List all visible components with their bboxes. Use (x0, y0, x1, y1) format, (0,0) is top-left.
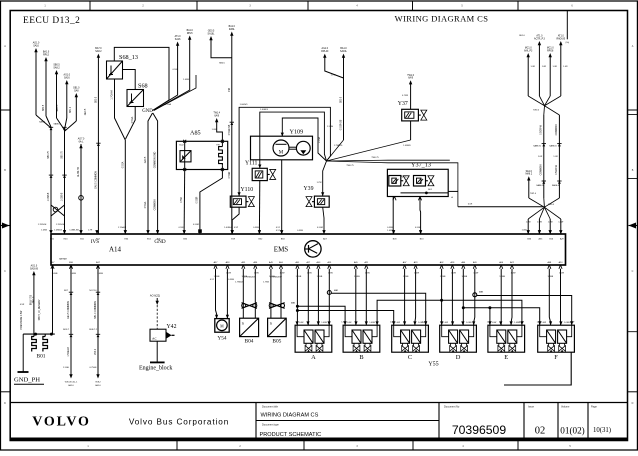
svg-text:1.0SB/9: 1.0SB/9 (403, 145, 411, 147)
svg-text:1.0GN/9: 1.0GN/9 (260, 109, 269, 111)
svg-text:1.7SB-B: 1.7SB-B (235, 282, 243, 284)
svg-text:A85: A85 (190, 130, 201, 137)
svg-text:D: D (632, 402, 634, 405)
svg-text:1.0SB: 1.0SB (403, 276, 409, 278)
svg-text:B04: B04 (245, 339, 254, 345)
svg-text:1.0SB: 1.0SB (183, 79, 189, 81)
svg-text:1.0W: 1.0W (422, 322, 427, 324)
svg-text:1.0W: 1.0W (365, 273, 370, 275)
svg-text:PRODUCT SCHEMATIC: PRODUCT SCHEMATIC (260, 432, 322, 438)
svg-text:MC1.0: MC1.0 (547, 48, 554, 50)
svg-text:1.0SB-B: 1.0SB-B (62, 192, 64, 201)
svg-text:1.0W: 1.0W (299, 322, 304, 324)
svg-text:Y37_13: Y37_13 (411, 162, 431, 169)
svg-text:0.5GR: 0.5GR (193, 224, 200, 226)
svg-text:Page: Page (591, 406, 597, 409)
svg-text:SB0.5: SB0.5 (341, 96, 343, 103)
svg-text:1.0W: 1.0W (570, 322, 575, 324)
svg-text:1.0SB: 1.0SB (387, 230, 393, 232)
svg-text:SB1.0: SB1.0 (70, 106, 72, 113)
svg-text:VOLVO: VOLVO (32, 415, 91, 430)
svg-text:10(31): 10(31) (593, 427, 611, 434)
svg-text:1.0SB: 1.0SB (461, 276, 467, 278)
svg-text:Y54: Y54 (217, 336, 227, 342)
svg-text:SB0.5: SB0.5 (53, 65, 60, 67)
svg-text:TW0.5: TW0.5 (548, 204, 555, 206)
svg-text:0.75W: 0.75W (402, 95, 408, 97)
svg-text:1.0W: 1.0W (328, 273, 333, 275)
svg-text:M: M (220, 324, 224, 328)
svg-text:0.5W: 0.5W (181, 196, 183, 202)
svg-text:B01: B01 (37, 354, 46, 360)
svg-text:RPO8: RPO8 (547, 50, 554, 52)
svg-text:TW1.4: TW1.4 (213, 113, 220, 115)
svg-text:SB0.75: SB0.75 (48, 151, 50, 159)
svg-text:AO 6(22): AO 6(22) (150, 295, 160, 298)
svg-text:1.0SB-B: 1.0SB-B (54, 230, 62, 232)
svg-text:0.5Y: 0.5Y (276, 230, 281, 232)
svg-text:1.5GN: 1.5GN (327, 126, 334, 128)
svg-text:0.5Y: 0.5Y (210, 279, 215, 281)
svg-text:1.7W: 1.7W (331, 75, 336, 77)
svg-text:PM: PM (229, 88, 231, 92)
svg-text:0.5GR: 0.5GR (415, 227, 422, 229)
svg-text:1.0W: 1.0W (519, 322, 524, 324)
svg-text:1.0W: 1.0W (341, 322, 346, 324)
svg-text:D: D (456, 354, 461, 361)
svg-text:1.0SB: 1.0SB (440, 276, 446, 278)
svg-text:0.5Y: 0.5Y (276, 227, 281, 229)
svg-text:1.0SB: 1.0SB (41, 230, 47, 232)
svg-text:n: n (270, 321, 272, 326)
svg-text:1.0R: 1.0R (563, 66, 568, 68)
svg-text:C: C (632, 270, 634, 273)
svg-text:1.0W: 1.0W (511, 273, 516, 275)
svg-text:SB1.0: SB1.0 (73, 88, 80, 90)
svg-text:GND: GND (142, 109, 153, 114)
svg-text:1.0W: 1.0W (307, 273, 312, 275)
svg-text:TW0.75: TW0.75 (346, 165, 354, 167)
svg-text:1.0W: 1.0W (347, 322, 352, 324)
svg-text:1.0W: 1.0W (526, 222, 531, 224)
svg-text:70396509: 70396509 (452, 423, 506, 437)
svg-text:1.7R: 1.7R (88, 230, 93, 232)
svg-text:GE0.5: GE0.5 (208, 31, 215, 33)
svg-text:1.0W: 1.0W (395, 322, 400, 324)
svg-text:EECU D13_2: EECU D13_2 (23, 16, 80, 26)
svg-text:Y110: Y110 (241, 187, 254, 193)
svg-text:S68_13: S68_13 (119, 54, 138, 61)
svg-text:Document type: Document type (262, 424, 279, 427)
svg-text:1.0W: 1.0W (537, 322, 542, 324)
svg-text:1.0W: 1.0W (212, 129, 217, 131)
svg-text:S68: S68 (138, 83, 148, 90)
svg-text:0.5GR-SB: 0.5GR-SB (229, 124, 231, 135)
svg-text:Engine_block: Engine_block (139, 366, 172, 372)
svg-text:0.5R: 0.5R (20, 304, 25, 306)
svg-text:V08_NC10_1: V08_NC10_1 (65, 382, 78, 384)
svg-text:WIRING DIAGRAM CS: WIRING DIAGRAM CS (261, 413, 319, 419)
svg-text:TW1.0: TW1.0 (530, 193, 537, 195)
svg-text:1.0W: 1.0W (390, 322, 395, 324)
svg-text:02: 02 (535, 426, 546, 437)
svg-text:SB0.5_16_RESERV: SB0.5_16_RESERV (39, 299, 41, 320)
svg-text:Volvo Bus Corporation: Volvo Bus Corporation (129, 417, 229, 426)
svg-text:n: n (242, 321, 244, 326)
svg-text:1.0R: 1.0R (553, 156, 558, 158)
svg-text:0.5W: 0.5W (179, 227, 184, 229)
svg-text:1.0W: 1.0W (558, 222, 563, 224)
svg-text:1.0W: 1.0W (487, 322, 492, 324)
svg-text:1.0UB-6: 1.0UB-6 (224, 227, 232, 229)
svg-text:TW1.0: TW1.0 (407, 75, 414, 77)
svg-text:1.0SB: 1.0SB (564, 322, 570, 324)
svg-text:0.5GR: 0.5GR (229, 171, 231, 178)
svg-text:1.0SB: 1.0SB (214, 276, 220, 278)
svg-text:WIRING DIAGRAM CS: WIRING DIAGRAM CS (395, 13, 489, 23)
svg-text:Y42: Y42 (167, 324, 177, 330)
svg-text:E: E (504, 354, 508, 361)
svg-text:1.0SB: 1.0SB (466, 322, 472, 324)
svg-text:SB0.5: SB0.5 (219, 63, 226, 65)
svg-text:RD0.5: RD0.5 (57, 104, 59, 111)
svg-text:0.5W: 0.5W (173, 69, 178, 71)
svg-text:1.0R: 1.0R (553, 66, 558, 68)
svg-text:1.5GE: 1.5GE (63, 367, 70, 369)
svg-text:PRESSURE 0.5W: PRESSURE 0.5W (21, 310, 23, 329)
svg-text:C: C (408, 354, 412, 361)
svg-text:0.5GR-W: 0.5GR-W (556, 164, 558, 174)
svg-text:1.0W: 1.0W (522, 230, 527, 232)
svg-text:Y37: Y37 (398, 101, 408, 107)
svg-text:1.0W: 1.0W (559, 273, 564, 275)
svg-text:1.0W: 1.0W (473, 273, 478, 275)
svg-text:Volume: Volume (561, 406, 570, 409)
svg-text:TW0.75: TW0.75 (371, 157, 379, 159)
svg-text:SB0.75: SB0.75 (62, 151, 64, 159)
svg-text:1.0SB-B: 1.0SB-B (48, 192, 50, 201)
svg-text:EMS: EMS (274, 246, 289, 254)
svg-text:C: C (4, 270, 6, 273)
svg-text:0.75SB-B.B: 0.75SB-B.B (244, 277, 255, 279)
svg-text:1.0GN/9: 1.0GN/9 (240, 104, 249, 106)
svg-text:(2x): (2x) (566, 42, 570, 44)
svg-text:Document No: Document No (444, 406, 460, 409)
svg-text:SE1.0: SE1.0 (526, 171, 533, 173)
svg-text:SUB.7.2: SUB.7.2 (89, 329, 98, 331)
svg-text:0.5GR-SB: 0.5GR-SB (341, 119, 343, 130)
svg-text:COMMON GND: COMMON GND (155, 151, 157, 168)
svg-text:0.5SB: 0.5SB (228, 279, 234, 281)
svg-text:RPL40: RPL40 (321, 51, 329, 53)
svg-text:1.0SB: 1.0SB (499, 276, 505, 278)
svg-text:GE1.5 COMMON: GE1.5 COMMON (68, 301, 70, 319)
svg-text:Y111: Y111 (245, 161, 258, 167)
svg-text:0.75GE: 0.75GE (89, 367, 97, 369)
svg-text:B: B (359, 354, 363, 361)
svg-text:M: M (279, 151, 284, 156)
svg-text:1.5GE-M: 1.5GE-M (68, 347, 70, 356)
svg-text:SB0.5: SB0.5 (95, 96, 97, 103)
svg-text:1.0W: 1.0W (226, 273, 231, 275)
svg-text:1.0W: 1.0W (541, 322, 546, 324)
svg-text:NO7.16: NO7.16 (89, 290, 97, 292)
svg-text:1.7W: 1.7W (317, 182, 322, 184)
svg-text:Y39: Y39 (304, 186, 314, 192)
svg-text:01(02): 01(02) (560, 426, 585, 436)
svg-text:0.5GR: 0.5GR (317, 227, 324, 229)
svg-text:1.0W: 1.0W (280, 273, 285, 275)
svg-text:1.0W: 1.0W (254, 273, 259, 275)
svg-text:A14: A14 (109, 246, 122, 254)
svg-text:V06.2: V06.2 (95, 348, 97, 355)
svg-text:0.5P: 0.5P (234, 227, 239, 229)
svg-text:0.5SB: 0.5SB (253, 227, 259, 229)
svg-text:1.0W: 1.0W (451, 273, 456, 275)
svg-text:1.0W: 1.0W (537, 222, 542, 224)
svg-text:COMMON: COMMON (556, 124, 558, 135)
svg-text:0.5R: 0.5R (468, 204, 473, 206)
svg-text:Issue: Issue (528, 406, 535, 409)
svg-text:B05: B05 (272, 339, 281, 345)
svg-text:GND_PH: GND_PH (14, 377, 40, 384)
svg-text:1.0BN-SB: 1.0BN-SB (69, 230, 79, 232)
svg-text:1.0SB: 1.0SB (547, 276, 553, 278)
svg-text:A: A (311, 354, 316, 361)
svg-text:1.0SB: 1.0SB (319, 136, 321, 143)
svg-text:1.7SB: 1.7SB (263, 282, 269, 284)
svg-text:NO8.7: NO8.7 (63, 329, 70, 331)
svg-text:0.5SB: 0.5SB (297, 230, 303, 232)
svg-text:BULY 750: BULY 750 (31, 294, 33, 305)
svg-text:0.75SB-BGF: 0.75SB-BGF (270, 277, 283, 279)
svg-text:RPL5: RPL5 (43, 54, 49, 56)
svg-text:1.0R: 1.0R (531, 66, 536, 68)
svg-text:F: F (554, 354, 558, 361)
svg-text:MC1.0: MC1.0 (525, 48, 532, 50)
svg-text:1.7GN-M: 1.7GN-M (38, 224, 47, 226)
svg-text:1.7GN-M: 1.7GN-M (56, 224, 65, 226)
svg-text:RPL5: RPL5 (187, 33, 193, 35)
svg-text:0.5SB: 0.5SB (387, 227, 393, 229)
svg-text:1.0W: 1.0W (492, 322, 497, 324)
svg-text:Y55: Y55 (428, 362, 438, 368)
svg-text:0.5GR-W: 0.5GR-W (541, 124, 543, 134)
svg-text:1.0SB: 1.0SB (321, 322, 327, 324)
svg-text:1.0R: 1.0R (542, 66, 547, 68)
svg-text:1.0W: 1.0W (548, 222, 553, 224)
svg-text:COMMON: COMMON (541, 164, 543, 175)
svg-text:D: D (4, 402, 6, 405)
svg-text:1.0SB: 1.0SB (369, 322, 375, 324)
svg-text:V08.2: V08.2 (95, 382, 101, 384)
svg-text:GE0.5: GE0.5 (85, 108, 87, 115)
svg-text:1.0SB: 1.0SB (296, 276, 302, 278)
svg-text:1.0R: 1.0R (538, 156, 543, 158)
svg-text:1.0SB: 1.0SB (317, 276, 323, 278)
svg-text:Document title: Document title (262, 406, 279, 409)
svg-text:Y109: Y109 (290, 129, 304, 136)
svg-text:1.0W: 1.0W (443, 322, 448, 324)
svg-text:SE1.0: SE1.0 (519, 35, 526, 37)
svg-text:AC: AC (152, 337, 157, 341)
svg-text:SB1.0 COMMON: SB1.0 COMMON (95, 301, 97, 319)
svg-text:1.7SB/16: 1.7SB/16 (334, 145, 343, 147)
svg-text:1.0W: 1.0W (414, 273, 419, 275)
svg-text:0.5GR: 0.5GR (197, 196, 199, 203)
svg-text:COMMON: COMMON (155, 199, 157, 210)
svg-text:SB0.5: SB0.5 (43, 104, 45, 111)
svg-text:1.0SB: 1.0SB (354, 276, 360, 278)
svg-text:TW0.5: TW0.5 (533, 110, 540, 112)
